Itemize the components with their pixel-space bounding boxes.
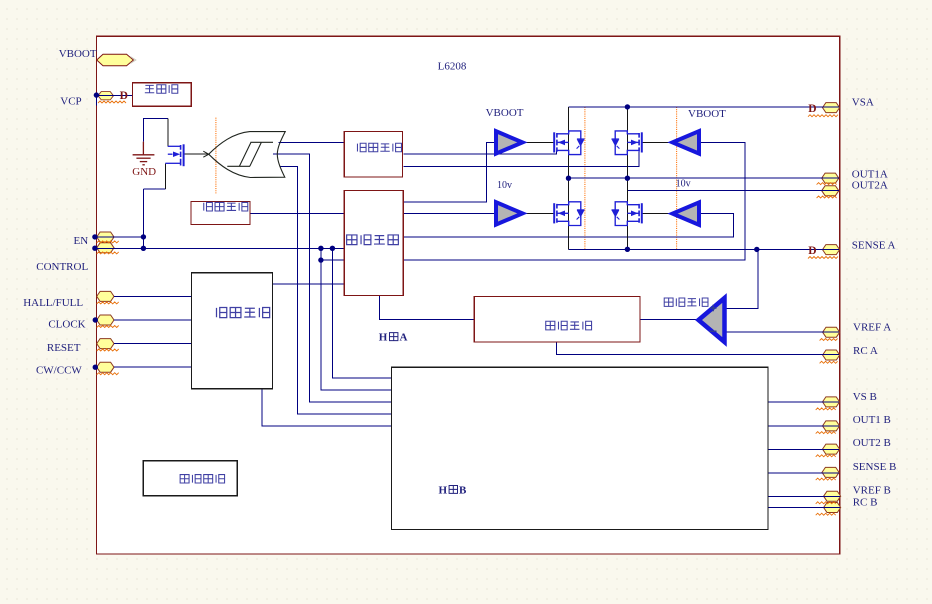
svg-text:CLOCK: CLOCK — [48, 319, 85, 331]
wire mid rail to OUT1A — [569, 177, 840, 179]
no-erc VS B — [816, 408, 836, 410]
pin EN — [97, 232, 114, 242]
gnd symbol — [133, 142, 155, 165]
junction control net 1 — [318, 246, 323, 251]
no-erc SENSE A — [808, 257, 838, 259]
no-erc EN — [97, 241, 119, 243]
wire SENSE B — [768, 472, 839, 474]
wire comparator to VREF A — [725, 331, 839, 333]
box gate logic — [344, 191, 403, 296]
svg-text:VBOOT: VBOOT — [59, 48, 97, 60]
svg-text:OUT1A: OUT1A — [852, 168, 888, 180]
pin OUT1A — [822, 173, 839, 183]
sheet — [97, 36, 840, 554]
junction CLOCK at border — [93, 317, 98, 322]
port VBOOT — [97, 54, 136, 65]
wire OUT2 B — [768, 448, 839, 450]
pin RC A — [823, 350, 840, 360]
chinese: overcurrent detect 过流检测 — [357, 143, 401, 152]
wire bridge vertical mid — [626, 107, 628, 250]
chinese: gate logic 门控逻辑 — [347, 235, 399, 245]
wire top rail to VSA — [569, 106, 840, 108]
buffer U4 — [673, 202, 700, 224]
junction control net 2 — [330, 246, 335, 251]
wire buffer1 to M1 gate — [525, 141, 555, 143]
junction VCP — [94, 92, 99, 97]
wire HALL/FULL — [114, 295, 191, 297]
pin VSA — [823, 103, 840, 113]
svg-text:VREF B: VREF B — [853, 484, 891, 496]
wire fet drain — [167, 119, 169, 147]
wire OC-detect out1 — [403, 151, 556, 155]
chinese: overcurrent protect 过流保护 — [204, 202, 248, 211]
svg-text:HALL/FULL: HALL/FULL — [23, 297, 83, 309]
svg-text:D: D — [808, 103, 816, 115]
wire comparator plus input — [725, 249, 758, 308]
wire gate-logic input 2 — [321, 259, 344, 261]
wire M3 gate to buffer3 — [642, 141, 673, 143]
wire RC A — [557, 342, 840, 354]
box pulse distribution — [191, 273, 272, 389]
svg-text:L6208: L6208 — [438, 60, 467, 72]
svg-text:RESET: RESET — [47, 342, 81, 354]
no-erc OUT2 B — [816, 455, 836, 457]
wire OUT1 B — [768, 425, 839, 427]
erc marker line 1 — [215, 118, 217, 194]
svg-text:A: A — [400, 332, 408, 344]
wire VCP to charge pump — [96, 95, 132, 105]
junction mid rail left — [566, 176, 571, 181]
svg-text:H: H — [379, 332, 388, 344]
chinese: internal power 内部电源 — [180, 475, 224, 483]
wire gatelogic out4 to buffer3 — [403, 142, 745, 260]
no-erc CW/CCW — [97, 373, 119, 375]
svg-text:EN: EN — [74, 235, 89, 247]
no-erc OUT2A — [817, 196, 837, 198]
svg-text:VBOOT: VBOOT — [688, 108, 726, 120]
erc marker line 2 — [584, 107, 586, 250]
wire OC-detect out2 — [403, 152, 639, 166]
svg-text:VREF A: VREF A — [853, 322, 891, 334]
junction EN wire — [141, 234, 146, 239]
pin OUT1 B — [823, 421, 840, 431]
pin CLOCK — [97, 315, 114, 325]
svg-text:GND: GND — [132, 166, 156, 178]
chinese: current control 电流控制 — [546, 321, 592, 330]
junction CONTROL wire — [141, 246, 146, 251]
wire CLOCK — [114, 319, 191, 321]
pin SENSE A — [823, 245, 840, 255]
pin SENSE B — [822, 467, 839, 477]
svg-text:VSA: VSA — [852, 97, 874, 109]
svg-text:10v: 10v — [497, 180, 512, 191]
wire EN — [95, 236, 143, 238]
wire pulse-dist out — [273, 283, 345, 285]
buffer U1 — [496, 131, 523, 153]
wire OC-protect out — [250, 212, 344, 214]
pin VS B — [823, 397, 840, 407]
wire to HbridgeB in2 — [321, 248, 392, 390]
schmitt trigger gate — [203, 132, 285, 178]
junction sense A tap — [754, 247, 759, 252]
svg-text:VS B: VS B — [853, 391, 877, 403]
wire current-control to comparator — [640, 318, 697, 320]
svg-text:10v: 10v — [676, 178, 691, 189]
nmos M1 — [554, 131, 584, 155]
svg-text:SENSE A: SENSE A — [852, 239, 896, 251]
svg-text:B: B — [459, 484, 467, 496]
no-erc RC B — [816, 513, 836, 515]
erc marker line 3 — [676, 107, 678, 250]
wire gnd-fet top loop — [143, 119, 167, 189]
wires black — [165, 107, 673, 250]
chinese: current compare 电流比较 — [664, 298, 708, 306]
no-erc OUT1 B — [816, 432, 836, 434]
wire schmitt mid to HbridgeB in3 — [273, 154, 392, 402]
chinese: pulse distribution 脉冲分配 — [217, 308, 270, 318]
nmos M2 — [554, 202, 584, 226]
wire buffer2 to M2 gate — [525, 212, 555, 214]
pin OUT2 B — [823, 444, 840, 454]
wire M4 gate to buffer4 — [642, 213, 673, 215]
no-erc RC A — [820, 361, 838, 363]
wire fet gate to schmitt — [185, 153, 209, 155]
nmos M3 — [612, 131, 642, 155]
svg-text:RC B: RC B — [853, 497, 878, 509]
junction top rail — [625, 104, 630, 109]
buffer U3 — [673, 131, 700, 153]
no-erc VREF B — [816, 502, 836, 504]
chinese: charge pump 充电泵 — [145, 85, 178, 94]
box current control — [474, 296, 640, 342]
svg-text:VCP: VCP — [60, 96, 81, 108]
wire bottom rail to SENSE A — [569, 248, 840, 250]
wire gatelogic out2 to buffer2 — [403, 212, 494, 214]
junction bottom rail — [625, 247, 630, 252]
svg-text:OUT1 B: OUT1 B — [853, 414, 891, 426]
wire EN-CONTROL vertical — [142, 189, 144, 249]
no-erc RESET — [97, 349, 119, 351]
junction mid rail — [625, 176, 630, 181]
wire pulse-dist bottom to HbridgeB in5 — [262, 389, 392, 426]
buffer U2 — [496, 202, 523, 224]
pin CONTROL — [97, 243, 114, 253]
svg-text:OUT2A: OUT2A — [852, 180, 888, 192]
junction gate-logic input — [318, 257, 323, 262]
no-erc VREF A — [820, 339, 838, 341]
box OC detect — [344, 131, 402, 177]
wire gatelogic out1 to buffer1 — [403, 142, 494, 202]
svg-text:H: H — [439, 484, 448, 496]
pin VREF A — [823, 327, 840, 337]
svg-text:D: D — [808, 245, 816, 257]
no-erc CLOCK — [97, 326, 119, 328]
label H bridge A — [379, 332, 467, 497]
wire RESET — [114, 343, 191, 345]
wire to OUT2A — [627, 189, 839, 191]
nmos M4 — [612, 202, 642, 226]
svg-text:VBOOT: VBOOT — [486, 107, 524, 119]
no-erc HALL/FULL — [97, 302, 119, 304]
pin HALL/FULL — [97, 291, 114, 301]
junction EN at border — [92, 234, 97, 239]
no-erc SENSE B — [816, 478, 836, 480]
junction CW/CCW at border — [93, 365, 98, 370]
no-erc VCP — [98, 101, 126, 103]
wire fet source — [164, 163, 166, 189]
pin VCP — [98, 92, 113, 100]
wire CW/CCW — [114, 366, 191, 368]
box internal power — [143, 461, 237, 496]
junction CONTROL at border — [92, 246, 97, 251]
no-erc CONTROL — [97, 252, 119, 254]
wire to HbridgeB in1 — [332, 248, 391, 378]
box OC protect — [191, 201, 250, 224]
wire VREF B — [768, 495, 840, 497]
wire schmitt bot to HbridgeB in4 — [280, 166, 392, 414]
wire schmitt to OC-detect — [279, 141, 345, 143]
box charge pump — [133, 83, 192, 107]
svg-text:D: D — [120, 90, 128, 102]
wires navy — [95, 95, 840, 507]
pin OUT2A — [822, 186, 839, 196]
wire gatelogic out3 to buffer4 — [403, 214, 733, 237]
svg-text:OUT2 B: OUT2 B — [853, 437, 891, 449]
comparator U5 — [699, 298, 725, 342]
box H bridge B — [392, 367, 769, 529]
squiggles — [97, 101, 838, 515]
svg-text:CONTROL: CONTROL — [36, 261, 88, 273]
wire bridge vertical left — [568, 107, 570, 250]
pin RC B — [824, 503, 841, 513]
wire RC B — [768, 507, 840, 509]
svg-text:RC A: RC A — [853, 345, 878, 357]
transistor Q1 charge pump fet — [165, 144, 183, 166]
svg-text:CW/CCW: CW/CCW — [36, 365, 82, 377]
no-erc VSA — [808, 115, 838, 117]
wire gatelogic bottom to current-control — [379, 296, 474, 320]
pin RESET — [97, 339, 114, 349]
pin VREF B — [824, 491, 841, 501]
wire VS B — [768, 401, 839, 403]
pin CW/CCW — [97, 362, 114, 372]
wire CONTROL — [95, 247, 344, 249]
svg-text:SENSE B: SENSE B — [853, 461, 897, 473]
no-erc OUT1A — [817, 183, 837, 185]
